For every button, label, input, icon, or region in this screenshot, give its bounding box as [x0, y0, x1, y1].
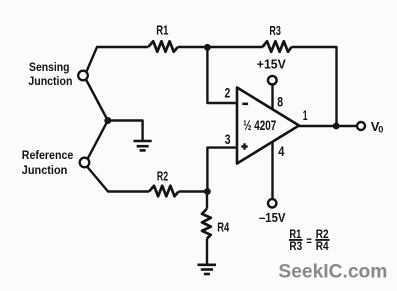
resistor R4	[202, 209, 211, 239]
wire pin 8	[271, 85, 273, 110]
terminal circle Sensing Junction	[78, 71, 88, 81]
svg-text:–15V: –15V	[259, 210, 286, 225]
terminal circle -15V	[268, 199, 276, 207]
node A	[204, 44, 211, 51]
ground 2	[198, 265, 217, 274]
svg-text:Reference: Reference	[22, 148, 74, 162]
node D	[104, 117, 111, 124]
wire R4 to ground	[206, 239, 208, 264]
op-amp plus sign	[241, 143, 247, 149]
svg-text:R4: R4	[217, 220, 230, 235]
svg-text:SeekIC.com: SeekIC.com	[278, 261, 387, 282]
formula R1/R3 = R2/R4	[289, 229, 329, 253]
wire reference to R2	[87, 167, 149, 192]
wire pin 4	[271, 142, 273, 200]
svg-text:½ 4207: ½ 4207	[243, 117, 276, 133]
svg-text:Sensing: Sensing	[29, 60, 70, 74]
wire output pin 1	[299, 125, 357, 127]
node B	[333, 123, 340, 130]
terminal circle +15V	[268, 76, 277, 85]
wire node C to pin 3	[207, 148, 236, 192]
wire sensing to node D	[86, 80, 108, 121]
svg-text:R2: R2	[157, 169, 168, 184]
svg-text:3: 3	[225, 132, 231, 147]
terminal circle Reference Junction	[80, 158, 90, 168]
svg-text:R3: R3	[289, 241, 302, 253]
svg-text:+15V: +15V	[257, 56, 286, 71]
node C	[204, 188, 211, 195]
svg-text:8: 8	[277, 95, 283, 110]
wire node C to R4	[206, 192, 208, 209]
wire node A to pin 2	[207, 47, 236, 103]
wire reference to node D	[88, 121, 108, 160]
terminal circle V0	[357, 122, 365, 130]
svg-text:Junction: Junction	[22, 163, 68, 177]
svg-text:4: 4	[278, 144, 285, 159]
svg-text:Junction: Junction	[28, 74, 72, 88]
wire R3 to output node	[292, 47, 337, 126]
wire R1 to R3	[178, 46, 263, 48]
svg-text:R1: R1	[156, 22, 168, 37]
svg-text:2: 2	[225, 85, 231, 100]
ground 1	[134, 141, 152, 150]
wire node D to ground	[108, 121, 143, 141]
wire sensing to R1 line	[87, 47, 149, 72]
resistor R3	[263, 41, 292, 52]
svg-text:R3: R3	[269, 23, 281, 38]
svg-text:0: 0	[378, 125, 383, 136]
svg-text:1: 1	[303, 108, 308, 123]
svg-text:R4: R4	[316, 241, 329, 253]
op-amp minus sign	[242, 103, 248, 106]
op-amp U1 triangle	[237, 88, 299, 164]
label Reference Junction	[22, 148, 74, 177]
formula fraction bars	[289, 239, 330, 241]
svg-text:=: =	[306, 236, 312, 248]
resistor R2	[149, 186, 179, 197]
resistor R1	[148, 41, 178, 52]
wire R2 to node C	[179, 190, 208, 192]
label Sensing Junction	[28, 60, 72, 88]
